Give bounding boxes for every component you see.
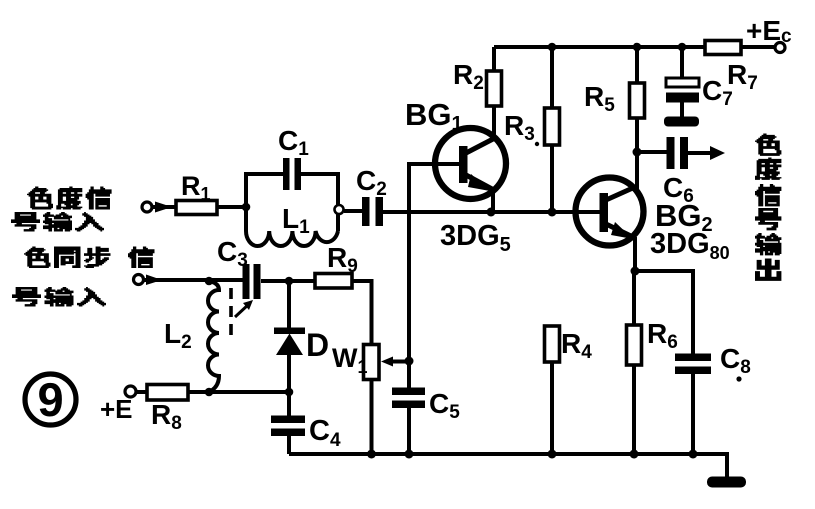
- resistor R2: [492, 47, 496, 72]
- node junction BG2 emitter: [631, 267, 640, 276]
- capacitor C6 (output coupling): [641, 150, 667, 154]
- wire bottom rail: [289, 454, 727, 478]
- wire R9 to W1 top: [352, 281, 372, 345]
- node junction R3/R4/BG2 base: [548, 208, 557, 217]
- capacitor C3: [243, 264, 250, 299]
- capacitor C4: [287, 392, 291, 416]
- ground (under C7): [664, 117, 699, 127]
- terminal +Ec: [775, 43, 785, 53]
- node junction C8/rail: [689, 450, 698, 459]
- node junction L2 top: [205, 277, 214, 286]
- node junction dot C7/top-rail: [678, 43, 687, 52]
- capacitor C1: [283, 158, 290, 190]
- wire top supply rail: [494, 45, 775, 49]
- terminal input 2 (burst signal in): [134, 275, 144, 285]
- svg-text:D: D: [306, 327, 329, 363]
- node junction D top: [285, 277, 294, 286]
- node junction L2 bottom: [205, 388, 214, 397]
- wire signal line C2 to BG2 base: [383, 210, 600, 214]
- transistor BG1: [435, 128, 506, 199]
- wire R3 to node B2: [550, 145, 554, 212]
- node junction C5/rail: [405, 450, 414, 459]
- capacitor C8: [675, 354, 711, 362]
- resistor R8: [136, 390, 147, 394]
- text chroma signal input (line 2): [11, 212, 40, 232]
- stray ink speck: [535, 142, 539, 146]
- terminal input 1 (chroma signal in): [142, 202, 152, 212]
- resistor R3: [550, 47, 554, 109]
- node junction R4/rail: [548, 450, 557, 459]
- node junction D bottom / C4 top: [285, 388, 294, 397]
- figure number 9: [25, 374, 76, 425]
- text burst signal input (line 1): [24, 247, 50, 269]
- diode D: [287, 281, 291, 329]
- node tank right (open): [335, 205, 344, 214]
- capacitor C2: [344, 209, 362, 213]
- terminal +E: [125, 386, 136, 397]
- tank circuit L1/C1 outline: [246, 174, 338, 231]
- resistor R9: [315, 274, 352, 289]
- text chroma signal output (vertical): [755, 134, 781, 156]
- transistor BG2: [576, 178, 644, 246]
- node junction R6/rail: [630, 450, 639, 459]
- inductor L2: [208, 281, 219, 392]
- wire W1 bottom to rail: [370, 380, 374, 455]
- node junction dot R5/top-rail: [633, 43, 642, 52]
- capacitor C5: [407, 361, 411, 388]
- wire R8 to C4 node: [188, 390, 289, 394]
- text chroma signal input (line 1): [27, 187, 53, 210]
- wire BG2 emitter to C8 branch: [635, 271, 693, 354]
- node junction W1/rail: [367, 450, 376, 459]
- ground: [707, 477, 746, 488]
- wire BG1 base to bias column: [409, 164, 459, 361]
- resistor R1: [176, 201, 217, 215]
- node tank left junction: [242, 203, 251, 212]
- inductor L1: [246, 231, 338, 246]
- wire input2 line: [143, 280, 315, 281]
- node junction BG1 emitter: [487, 208, 496, 217]
- text burst signal input (line 2): [12, 287, 41, 307]
- potentiometer W1: [364, 345, 380, 380]
- node junction dot R3/top-rail: [548, 43, 557, 52]
- adjustable core mark (dashed): [229, 288, 233, 342]
- resistor R4: [545, 326, 560, 362]
- node junction C6 tap: [633, 148, 642, 157]
- wire R5 to C6 tap: [635, 118, 639, 152]
- wire R2 to BG1 collector: [492, 106, 496, 139]
- svg-text:+E: +E: [100, 394, 133, 424]
- capacitor C7 (electrolytic to ground): [680, 47, 684, 79]
- resistor R5: [635, 47, 639, 84]
- node junction wiper/C5/bias: [405, 357, 414, 366]
- wire R1 to tank: [217, 205, 246, 209]
- resistor R6: [632, 271, 636, 326]
- resistor R7: [705, 41, 741, 55]
- svg-text:9: 9: [38, 373, 64, 426]
